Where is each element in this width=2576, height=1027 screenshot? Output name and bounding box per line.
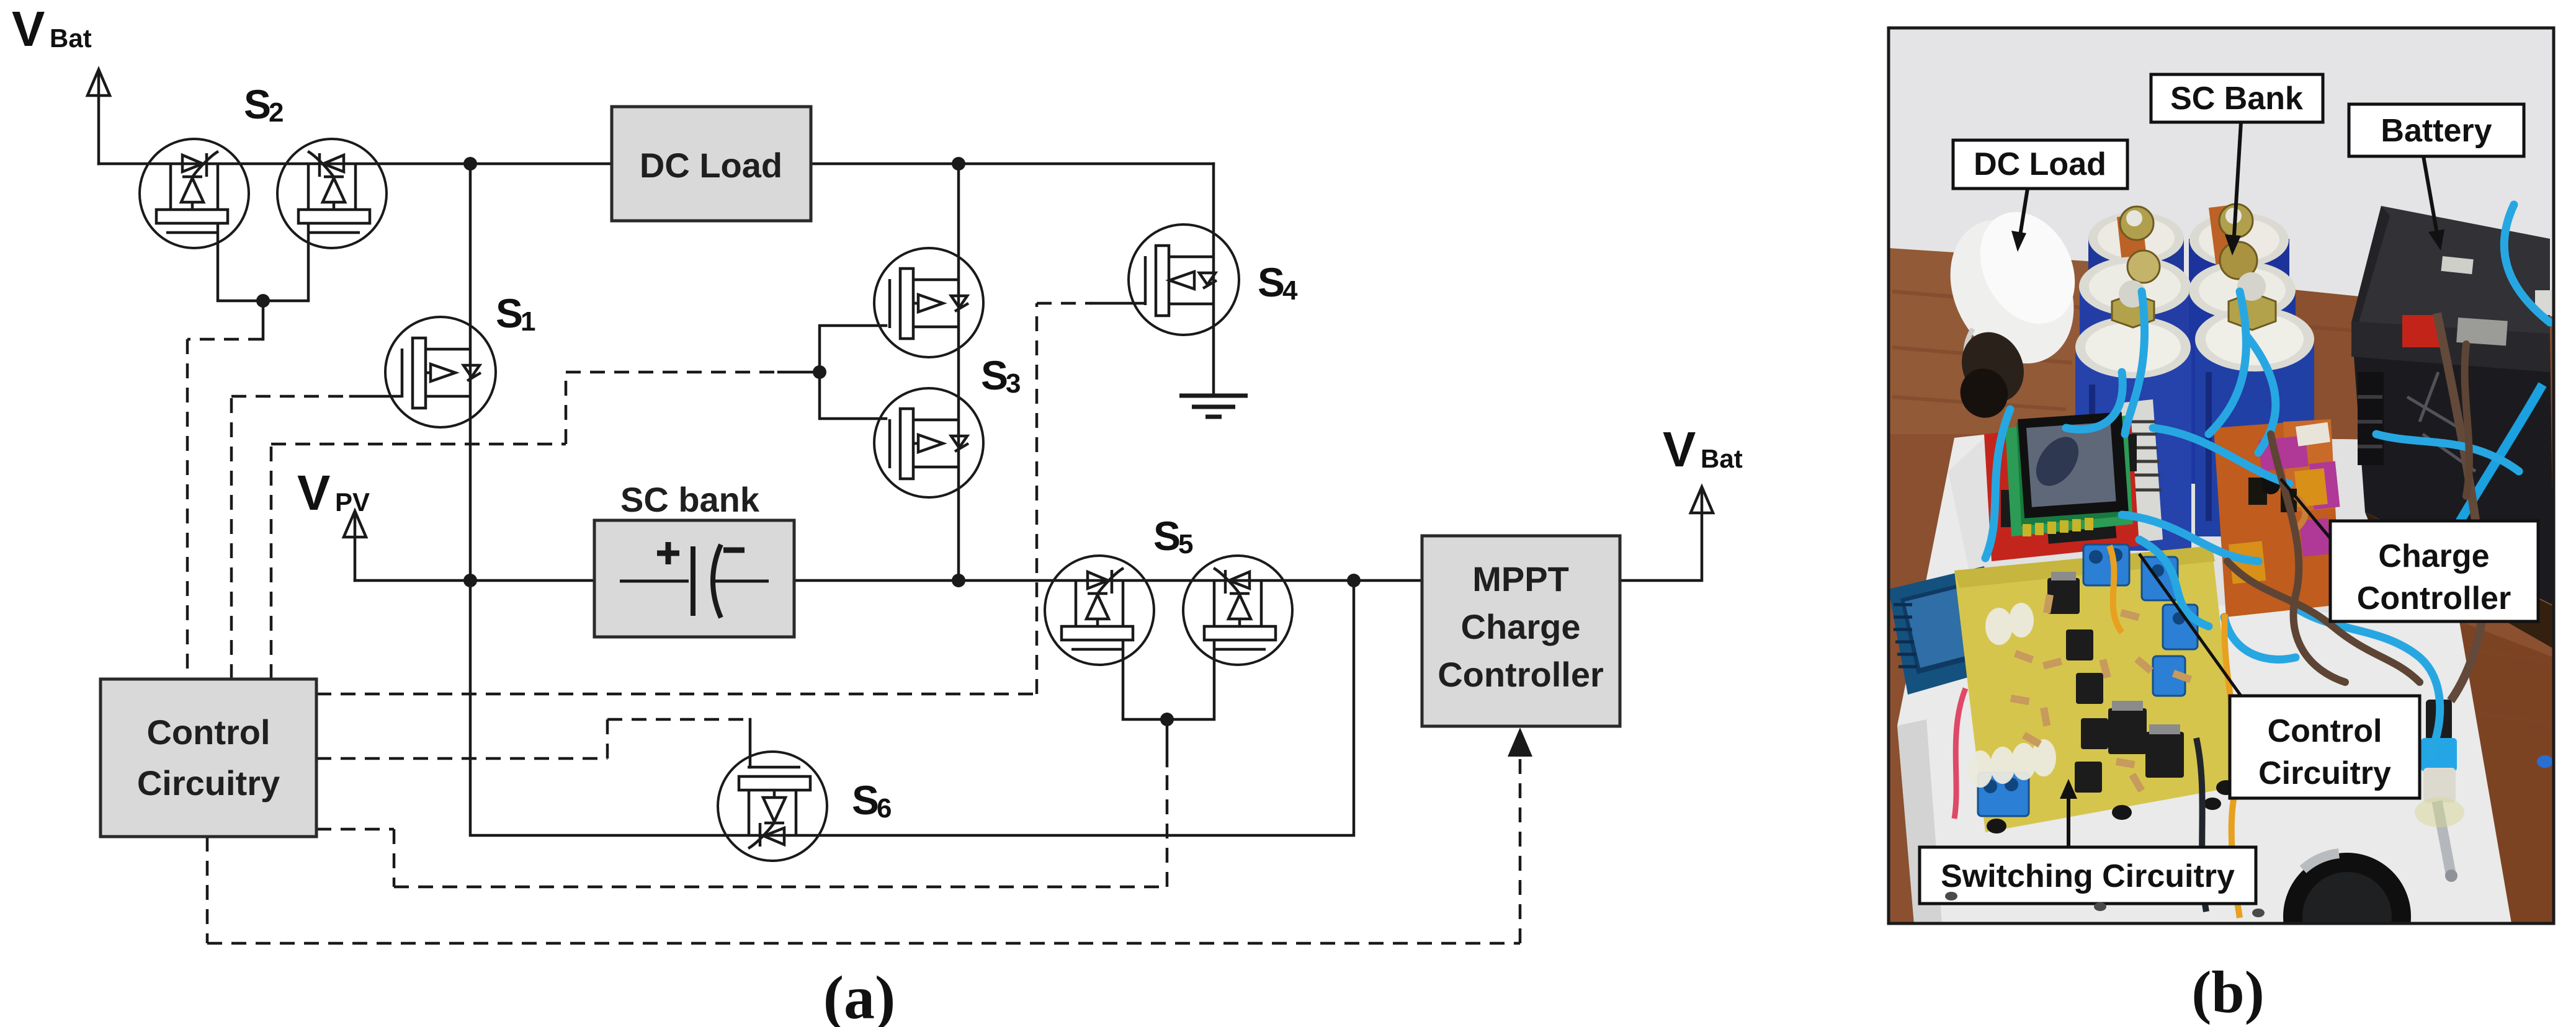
svg-text:Circuitry: Circuitry	[137, 763, 280, 802]
wire S3 gate tie	[779, 326, 886, 419]
standoffs	[1987, 780, 2236, 834]
label S4	[1258, 259, 1298, 306]
wire S5 source join	[1123, 639, 1214, 766]
photo blue hookup wires	[1985, 205, 2550, 754]
svg-text:DC Load: DC Load	[1974, 146, 2106, 182]
svg-text:V: V	[297, 465, 330, 520]
svg-text:MPPT: MPPT	[1472, 559, 1569, 598]
photo label Control Circuitry	[2139, 554, 2420, 798]
photo DC load lamp	[1926, 195, 2098, 425]
photo wooden table	[1889, 248, 2554, 923]
svg-text:2: 2	[269, 97, 284, 128]
svg-text:S: S	[981, 352, 1008, 398]
transistor S6	[718, 752, 827, 861]
transistor S4	[1129, 225, 1239, 335]
photo board screws	[1945, 892, 2265, 917]
photo battery	[2351, 206, 2554, 649]
wire MPPT right to VBat arrow	[1620, 491, 1702, 580]
svg-text:Control: Control	[2268, 713, 2382, 749]
node VPV label	[297, 465, 370, 520]
svg-text:1: 1	[521, 306, 535, 337]
arrow VPV	[344, 511, 366, 537]
wire dashed S5 gate	[316, 766, 1167, 887]
photo red PCB with green shield and LCD	[1984, 412, 2139, 561]
svg-text:SC Bank: SC Bank	[2170, 81, 2303, 117]
arrowhead into MPPT	[1508, 727, 1532, 757]
node A bus-left	[463, 157, 477, 171]
photo orange perfboard charge controller	[2214, 419, 2340, 617]
node S2 join	[256, 294, 270, 308]
photo label Battery	[2349, 104, 2524, 251]
svg-text:V: V	[12, 1, 45, 56]
wire S4 branch to ground	[1212, 164, 1215, 394]
svg-text:4: 4	[1282, 275, 1298, 306]
svg-text:Bat: Bat	[50, 24, 92, 53]
svg-text:Controller: Controller	[1438, 655, 1604, 694]
transistor S3b	[874, 388, 983, 497]
transistor S2b	[277, 139, 387, 248]
label S3	[981, 352, 1021, 399]
photo label Charge Controller	[2281, 479, 2538, 621]
photo table grain streaks	[1892, 291, 2550, 722]
photo battery brown wire	[2437, 313, 2484, 701]
node SC bus left	[463, 574, 477, 587]
photo yellow switching PCB	[1954, 545, 2238, 834]
label S5	[1153, 513, 1193, 559]
transistor S3a	[874, 248, 983, 357]
transistor S1	[385, 317, 496, 427]
wire S6 gate lead	[749, 719, 752, 767]
photo black speaker bottom	[2283, 853, 2411, 980]
svg-text:DC Load: DC Load	[640, 146, 782, 185]
label S2	[244, 81, 284, 128]
svg-text:Bat: Bat	[1701, 444, 1743, 473]
node SC bus right	[1347, 574, 1361, 587]
photo border frame	[1889, 28, 2554, 923]
resistors	[2010, 594, 2192, 793]
wire node758 down, bottom run, up to SC bus	[470, 164, 1354, 835]
photo white foam board	[1897, 434, 2511, 923]
svg-text:(a): (a)	[823, 963, 896, 1027]
svg-text:5: 5	[1178, 529, 1193, 559]
dashed control lines	[187, 303, 1520, 943]
svg-text:Control: Control	[146, 713, 270, 752]
transistor S5a	[1045, 556, 1154, 665]
black transistors	[2047, 578, 2184, 793]
node S3 gate	[813, 365, 826, 379]
wire dashed S1 gate	[231, 396, 351, 679]
svg-text:S: S	[1153, 513, 1181, 559]
wire S1 gate lead	[351, 395, 400, 398]
photo label Switching Circuitry	[1920, 779, 2256, 904]
wire dashed S3 gate	[271, 372, 780, 679]
photo label DC Load	[1953, 140, 2127, 252]
capacitor inside SC bank	[620, 542, 769, 618]
svg-text:S: S	[496, 290, 523, 336]
svg-text:Charge: Charge	[1461, 607, 1581, 646]
svg-text:SC bank: SC bank	[620, 480, 760, 519]
wire dashed S6 gate	[316, 719, 750, 758]
wire dashed MPPT control	[207, 754, 1520, 943]
svg-text:S: S	[244, 81, 271, 127]
photo supercapacitor bank	[2075, 204, 2314, 551]
label S1	[496, 290, 535, 337]
svg-text:6: 6	[877, 793, 892, 824]
transistor S2a	[140, 139, 249, 248]
photo label SC Bank	[2151, 74, 2323, 256]
wire DC load right down to SC bus	[957, 164, 960, 580]
svg-text:Controller: Controller	[2357, 580, 2511, 616]
wire dashed S4 gate	[316, 303, 1092, 694]
node VBat top-left label	[12, 1, 92, 56]
svg-text:V: V	[1663, 422, 1696, 477]
label S6	[852, 777, 892, 824]
wire VBat left riser	[97, 73, 101, 164]
wire VPV riser	[354, 515, 357, 580]
wire S4 gate lead	[1092, 302, 1145, 305]
svg-text:S: S	[852, 777, 879, 823]
arrow VBat top-left	[87, 69, 110, 96]
node VBat right label	[1663, 422, 1743, 477]
node S5 join	[1160, 713, 1174, 726]
wire SC bus	[355, 579, 1422, 582]
node SC bus mid	[952, 574, 965, 587]
jumper wires	[1985, 611, 2023, 698]
photo blue LCD module left	[1889, 566, 2042, 713]
arrow VBat right	[1691, 487, 1713, 513]
svg-text:Switching Circuitry: Switching Circuitry	[1941, 858, 2235, 894]
ground	[1179, 396, 1248, 417]
clear LEDs	[1968, 603, 2056, 788]
svg-text:(b): (b)	[2191, 959, 2264, 1025]
svg-text:S: S	[1258, 259, 1285, 305]
svg-text:Battery: Battery	[2381, 113, 2492, 149]
photo blue tack on table	[2537, 755, 2553, 768]
wire dashed S2 gate	[187, 339, 263, 679]
node B bus-right	[952, 157, 965, 171]
photo wall background	[1889, 28, 2554, 923]
transistor S5b	[1183, 556, 1292, 665]
photo toggle switch	[2415, 700, 2464, 882]
MPPT Charge Controller box	[1422, 536, 1620, 726]
blue terminal blocks	[1978, 545, 2198, 816]
svg-text:Circuitry: Circuitry	[2258, 755, 2391, 791]
svg-text:Charge: Charge	[2378, 538, 2489, 574]
DC Load box	[612, 107, 811, 221]
svg-text:3: 3	[1006, 368, 1021, 399]
SC bank box	[594, 480, 794, 637]
wire S2 source join	[218, 222, 308, 339]
wire top bus VBat to S4 corner	[99, 162, 1214, 166]
Control Circuitry box	[101, 679, 316, 837]
svg-text:PV: PV	[335, 487, 370, 517]
